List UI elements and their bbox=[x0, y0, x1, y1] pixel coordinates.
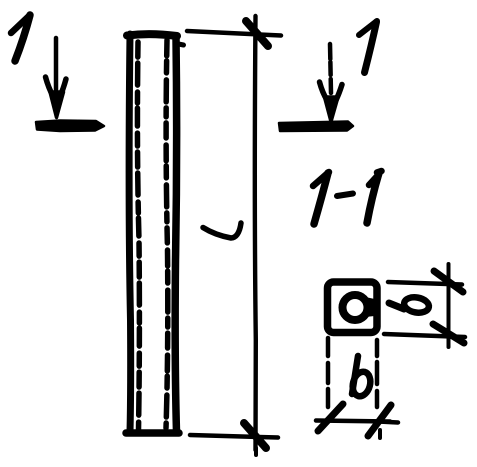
reinforcement bar right (dashed) bbox=[166, 40, 168, 428]
extension line top bbox=[187, 31, 281, 36]
tick b-right top bbox=[434, 271, 463, 292]
extension line section-bottom right bbox=[384, 334, 465, 337]
section line (right) bbox=[279, 122, 353, 132]
dimension line b (right) bbox=[447, 264, 451, 347]
reinforcement bar left (dashed) bbox=[137, 42, 139, 430]
view label 1-1 bbox=[313, 171, 382, 224]
extension line section-left bottom (dashed) bbox=[326, 338, 331, 413]
section label 1 (right) bbox=[359, 21, 377, 73]
tick top (dimension L) bbox=[246, 21, 268, 46]
tick b-bottom left bbox=[318, 404, 343, 431]
extension line bottom bbox=[190, 435, 278, 438]
dimension line L bbox=[253, 16, 258, 450]
tick b-bottom right bbox=[368, 405, 398, 438]
section arrow (left) bbox=[46, 38, 67, 118]
extension line section-right bottom (dashed) bbox=[375, 340, 380, 410]
label b (bottom) bbox=[350, 356, 373, 398]
extension line section-top right bbox=[388, 282, 462, 285]
section line (left) bbox=[36, 121, 104, 132]
tick b-right bottom bbox=[433, 324, 464, 343]
length mark squiggle bbox=[203, 223, 241, 238]
rebar circle bbox=[343, 295, 368, 320]
dimension line b (bottom) bbox=[316, 421, 390, 422]
section view square bbox=[328, 282, 378, 333]
tick bottom (dimension L) bbox=[244, 423, 266, 455]
section arrow (right) bbox=[320, 44, 343, 122]
section label 1 (left) bbox=[11, 15, 30, 61]
label b (right, rotated) bbox=[389, 295, 430, 314]
column outline bbox=[126, 34, 184, 433]
